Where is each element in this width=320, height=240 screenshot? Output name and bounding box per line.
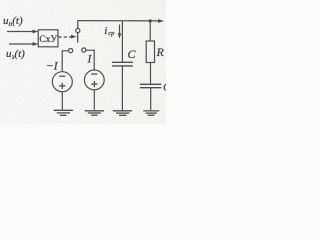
wire capacitor C1 to ground [150, 88, 152, 111]
wire resistor to capacitor C1 [150, 63, 152, 85]
label u_z(t) input 2 [6, 48, 25, 61]
wire source -I to ground [61, 92, 63, 110]
scan noise overlay [0, 0, 1, 1]
ground under C1 [143, 110, 159, 112]
switch top contact [76, 28, 80, 32]
current source I [84, 70, 104, 90]
wire arrow input 2 [9, 43, 35, 45]
resistor R [146, 41, 154, 63]
label i_cp [104, 25, 115, 37]
top rail wire [77, 20, 159, 22]
ground under I [85, 110, 104, 112]
dashed control line [59, 36, 72, 38]
switch left contact [69, 49, 73, 53]
wire capacitor C to ground [121, 66, 123, 110]
wire arrow input 1 [7, 31, 35, 33]
junction node [149, 19, 152, 22]
wire left contact to source [62, 51, 68, 72]
wire top rail to capacitor C [121, 21, 123, 62]
label -I [46, 61, 59, 73]
switch right contact [82, 48, 86, 52]
label u_p(t) input 1 [3, 15, 23, 28]
current source -I [52, 72, 72, 92]
wire junction to resistor R [149, 21, 151, 41]
paper background [0, 0, 166, 124]
ground under C [113, 110, 132, 112]
label I [87, 54, 93, 66]
label C1 (clipped at edge) [163, 82, 171, 94]
wire contact to top rail [77, 21, 79, 29]
wire right contact to source [86, 50, 94, 70]
switch blade S1 [77, 33, 79, 43]
wire source I to ground [93, 90, 95, 110]
current arrow i_cp [119, 25, 121, 36]
capacitor C1 [140, 83, 162, 85]
capacitor C [112, 61, 133, 63]
control unit box U1 (СхУ) [38, 30, 58, 47]
ground under -I [54, 109, 73, 111]
